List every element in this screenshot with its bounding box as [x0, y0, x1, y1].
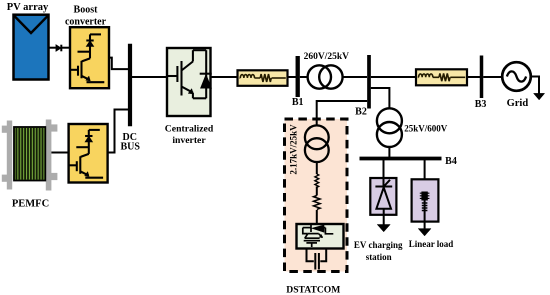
wire inverter to filter 1 [211, 76, 238, 78]
svg-text:BUS: BUS [120, 142, 140, 153]
wire linear load to ground arrow [424, 212, 426, 229]
filter 2 inductor [418, 76, 439, 78]
grid sine wave [507, 71, 526, 81]
boost converter 2 box [69, 124, 108, 183]
DSTATCOM VSC box [297, 224, 344, 249]
svg-text:station: station [366, 252, 392, 262]
linear load resistor block [421, 192, 427, 201]
DSTATCOM resistor (zigzag) [314, 196, 321, 210]
wire T1 to bus B2 [342, 76, 367, 78]
wire diode to boost converter 1 [61, 47, 69, 49]
diode between PV and boost converter [56, 45, 61, 52]
wire B1 to transformer T1 [300, 76, 308, 78]
boost converter 1 IGBT icon [70, 34, 104, 82]
svg-text:25kV/600V: 25kV/600V [404, 123, 448, 133]
PEMFC right end plate [46, 120, 58, 191]
wire resistor to VSC box [316, 210, 318, 224]
wire into DSTATCOM transformer [316, 119, 318, 126]
svg-text:Grid: Grid [507, 98, 529, 109]
svg-text:DSTATCOM: DSTATCOM [286, 284, 340, 295]
transformer T1 260V/25kV [308, 65, 331, 88]
wire B4 to linear load [424, 160, 426, 192]
VSC IGBT icon (rotated) [303, 225, 334, 247]
svg-text:B2: B2 [355, 107, 367, 118]
svg-text:PEMFC: PEMFC [12, 199, 49, 210]
EV charging station box [370, 178, 396, 215]
svg-text:Centralized: Centralized [165, 124, 214, 135]
svg-text:Linear load: Linear load [409, 239, 454, 249]
ground symbol [534, 93, 545, 100]
svg-text:B1: B1 [292, 97, 304, 108]
linear load inductor coil [424, 201, 426, 213]
DSTATCOM DC-link capacitor [307, 249, 327, 270]
wire filter 2 to bus B3 [467, 76, 480, 78]
svg-text:260V/25kV: 260V/25kV [304, 52, 350, 62]
bus B3 bar [480, 56, 484, 99]
linear load box [412, 179, 439, 221]
boost converter 1 box [70, 27, 109, 88]
wire boost converter 1 to DC bus [109, 58, 130, 70]
transformer T3 2.17kV/25kV [305, 125, 329, 149]
svg-text:EV charging: EV charging [354, 240, 403, 250]
svg-text:converter: converter [65, 17, 107, 28]
bus B1 bar [296, 56, 300, 97]
filter 1 inductor [240, 77, 261, 79]
wire PEMFC to boost converter 2 [51, 152, 68, 154]
DSTATCOM inductor (small coil) [315, 174, 319, 187]
ground arrow under EV charging station [377, 225, 390, 232]
wire T3 to inductor [316, 162, 318, 174]
wire B2 to DSTATCOM [317, 101, 368, 119]
wire B4 to EV charging station [383, 160, 385, 187]
PV array panel [14, 15, 49, 80]
wire B3 to grid [483, 76, 502, 78]
wire B2 to filter 2 [371, 76, 416, 78]
PEMFC left end plate [2, 121, 12, 190]
ground arrow under linear load [418, 229, 431, 236]
wire PV to diode [49, 47, 56, 49]
filter 2 resistor [439, 73, 450, 81]
filter 1 resistor [260, 74, 271, 82]
wire [316, 186, 318, 195]
svg-text:PV array: PV array [7, 2, 49, 13]
thyristor in EV charging station [375, 178, 392, 225]
centralized inverter box [167, 48, 211, 116]
wire filter 1 to bus B1 [288, 76, 297, 78]
svg-text:Boost: Boost [74, 5, 99, 16]
filter 1 box (RL filter) [238, 70, 288, 86]
svg-text:inverter: inverter [172, 135, 206, 146]
transformer T2 25kV/600V [377, 108, 402, 133]
boost converter 2 IGBT icon [69, 130, 103, 178]
bus B4 bar [360, 157, 442, 161]
wire B2 to transformer T2 [371, 88, 390, 108]
grid source circle [502, 62, 531, 91]
centralized inverter IGBT+diode icon [167, 50, 212, 98]
DC bus bar [128, 44, 132, 127]
wire T2 to bus B4 [388, 147, 390, 157]
wire DC bus to centralized inverter [130, 76, 167, 78]
filter 2 box (RL filter) [416, 69, 467, 85]
bus B2 bar [367, 55, 371, 109]
PV array chevron [14, 16, 48, 33]
svg-text:2.17kV/25kV: 2.17kV/25kV [289, 124, 299, 175]
svg-text:B4: B4 [445, 156, 457, 167]
DSTATCOM dashed enclosure [285, 119, 348, 272]
wire boost converter 2 to DC bus [108, 110, 130, 153]
svg-text:B3: B3 [475, 99, 487, 110]
PEMFC cell stack [14, 127, 45, 181]
wire grid to ground [531, 77, 539, 94]
